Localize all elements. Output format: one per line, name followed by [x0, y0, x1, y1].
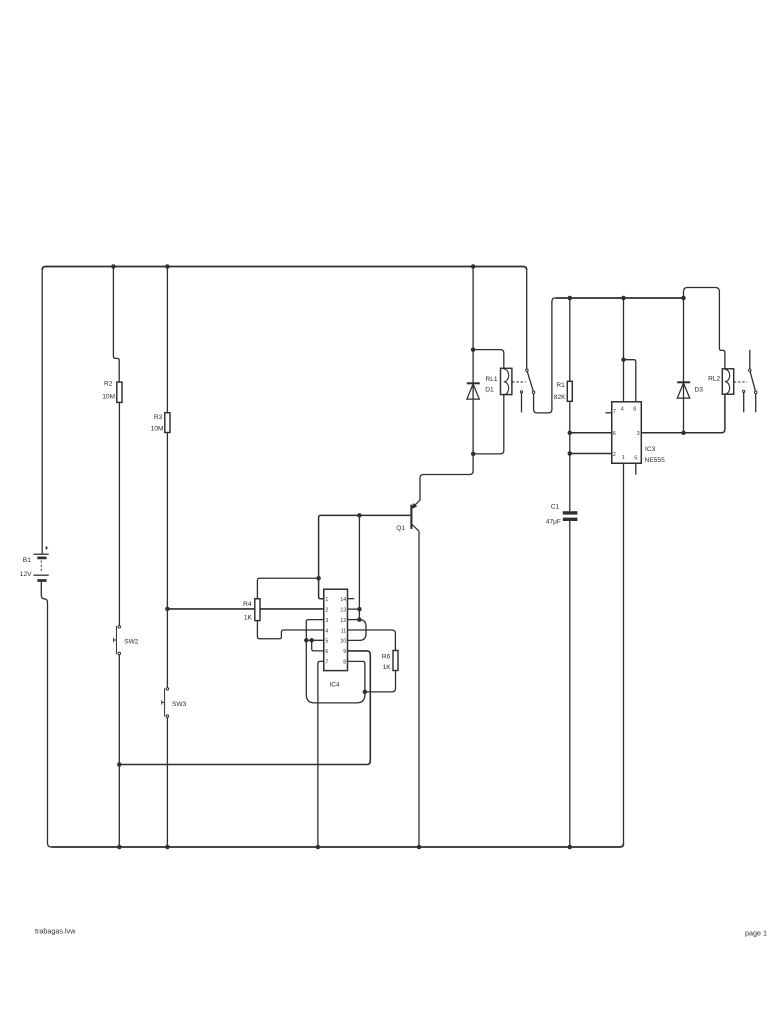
battery B1 inter-cell dashed link [40, 561, 42, 574]
relay RL2 contact blade end [754, 391, 757, 394]
switch SW2 actuator bar [114, 626, 117, 654]
svg-text:R1: R1 [556, 382, 565, 389]
node top rail / D1 [471, 264, 476, 269]
svg-text:13: 13 [340, 607, 346, 613]
svg-text:C1: C1 [551, 504, 560, 511]
wire IC4 pin12 to pin10 [348, 620, 367, 641]
capacitor C1 top plate [563, 511, 578, 514]
wire SW2 to bottom bus [118, 655, 120, 847]
svg-text:IC3: IC3 [645, 446, 656, 453]
wire IC4 pin6 link [312, 640, 324, 651]
wire C1 to bottom bus [569, 521, 571, 847]
wire top rail to D1 [472, 267, 474, 383]
svg-text:1K: 1K [383, 664, 392, 671]
resistor R1 [567, 381, 572, 401]
svg-text:12: 12 [340, 618, 346, 624]
wire IC3 pin6 stub [570, 432, 612, 434]
svg-text:R6: R6 [382, 653, 391, 660]
wire rail node to RL2 coil top [684, 288, 725, 369]
wire IC4 pin14 stub [348, 598, 355, 600]
relay RL2 contact pivot [749, 369, 752, 372]
svg-text:8: 8 [633, 406, 636, 412]
relay RL2 normally-open terminal stub [743, 393, 745, 413]
wire D3 anode to IC3 pin3 net [683, 383, 685, 433]
svg-text:10: 10 [340, 639, 346, 645]
wire top rail to R3 [166, 267, 168, 413]
node pin12 stub [357, 617, 362, 622]
node bus / SW3 [165, 845, 170, 850]
relay RL2 dashed actuator link [734, 381, 747, 383]
node bus / SW2 [117, 845, 122, 850]
wire Q1 emitter to bottom bus [418, 531, 420, 847]
svg-text:D1: D1 [485, 386, 494, 393]
wire Q1 base to IC4 pin1 [319, 515, 411, 598]
relay RL1 contact blade [527, 370, 534, 392]
svg-text:SW2: SW2 [124, 638, 139, 645]
transistor Q1 emitter diagonal [411, 524, 419, 531]
resistor R2 [117, 382, 122, 402]
wire R3 to SW3 [166, 433, 168, 688]
svg-text:5: 5 [634, 455, 637, 461]
relay RL2 output terminal stub [755, 393, 757, 412]
relay RL1 coil arcs [504, 369, 509, 395]
svg-text:3: 3 [637, 431, 640, 437]
relay RL2 normally-open terminal circle [743, 390, 745, 392]
wire top rail to RL1 common contact [526, 270, 528, 369]
svg-text:82K: 82K [554, 394, 566, 401]
wire 555 supply rail [555, 297, 683, 299]
wire R6 bottom to pin8 net [365, 671, 396, 692]
wire IC4 pin12 stub [348, 619, 360, 621]
relay RL1 normally-open terminal stub [521, 393, 523, 412]
svg-text:R3: R3 [154, 414, 163, 421]
resistor R6 [393, 651, 398, 671]
op-amp IC4 package [324, 589, 348, 670]
node R4 top / pin1 net [316, 576, 321, 581]
battery B1 plus sign [45, 546, 48, 549]
svg-text:4: 4 [325, 628, 328, 634]
node SW2 / pin9 net [117, 762, 122, 767]
wire IC4 pin3 down [306, 620, 323, 641]
svg-text:4: 4 [621, 406, 624, 412]
wire R4 top to IC4 pin1 node [257, 578, 318, 599]
svg-text:trabagas.lvw: trabagas.lvw [35, 927, 76, 936]
wire rail to IC3 pin4 [623, 298, 625, 402]
node bus / pin7 [316, 845, 321, 850]
svg-text:6: 6 [613, 431, 616, 437]
node SW3 / pin2 net [165, 607, 170, 612]
battery B1 cell2 short plate [37, 579, 46, 582]
svg-text:2: 2 [613, 452, 616, 458]
capacitor C1 bottom plate [563, 518, 578, 521]
wire IC4 pin5 stub [306, 639, 323, 641]
svg-text:2: 2 [325, 607, 328, 613]
svg-text:6: 6 [325, 649, 328, 655]
relay RL2 common terminal stub [749, 350, 751, 369]
relay RL2 coil arcs [725, 369, 730, 394]
wire D1 node to Q1 collector [412, 454, 473, 508]
wire IC4 pin11 to R6 top [348, 630, 396, 651]
relay RL1 dashed actuator link [512, 381, 525, 383]
node R6 bottom / pin8 net [363, 690, 368, 695]
node pin3/pin5 [304, 638, 309, 643]
svg-text:10M: 10M [151, 426, 164, 433]
svg-text:7: 7 [613, 409, 616, 415]
wire D1 anode down [472, 384, 474, 454]
svg-text:R4: R4 [243, 601, 252, 608]
wire SW3 to bottom bus [166, 717, 168, 847]
node pin5/pin6 [309, 638, 314, 643]
diode D1 cathode bar [467, 382, 480, 384]
wire IC3 pin3 to RL2 coil [641, 394, 725, 433]
svg-text:47µF: 47µF [546, 518, 561, 525]
wire IC4 pin8 loop to pin3/5 node [306, 640, 365, 703]
wire bottom ground bus [51, 843, 623, 847]
svg-text:1K: 1K [244, 614, 253, 621]
svg-text:SW3: SW3 [172, 701, 187, 708]
battery B1 cell1 long plate [33, 553, 48, 555]
transistor Q1 base bar [410, 505, 412, 529]
node Q1 base / pin13 [357, 513, 362, 518]
battery B1 cell2 long plate [33, 574, 48, 576]
switch SW2 bottom contact [118, 652, 121, 655]
wire IC3 pin7 stub [605, 412, 611, 414]
wire RL1 coil top branch [473, 350, 504, 369]
node pin4 / pin8 link [621, 357, 626, 362]
svg-text:11: 11 [341, 628, 346, 634]
relay RL1 contact pivot [526, 369, 529, 372]
relay RL1 coil box [501, 368, 512, 394]
wire rail node down to D3 [683, 298, 685, 382]
resistor R4 [255, 599, 260, 621]
wire IC3 pin5 stub [635, 463, 637, 474]
wire IC3 pin8 link [624, 360, 636, 402]
relay RL1 contact blade end [532, 391, 535, 394]
node R1 / pin6 [568, 431, 573, 436]
wire R4 bottom to IC4 pin4 [257, 621, 323, 639]
wire top rail to R2 [113, 267, 119, 383]
wire Q1 base net to IC4 pin13/12 [358, 515, 360, 619]
node 555 rail / D3 [681, 296, 686, 301]
battery B1 cell1 short plate [37, 557, 46, 560]
node bus / Q1 emitter [417, 845, 422, 850]
svg-text:RL2: RL2 [708, 376, 720, 383]
wire IC4 pin7 to bottom bus [318, 661, 324, 847]
node 555 rail / R1 [568, 296, 573, 301]
svg-text:3: 3 [325, 618, 328, 624]
diode D3 cathode bar [677, 381, 690, 383]
svg-text:D3: D3 [695, 386, 704, 393]
wire R1 bottom to IC3 pin6 node [569, 401, 571, 511]
relay RL2 coil box [722, 369, 733, 394]
wire rail to R1 [569, 298, 571, 381]
wire R2 to SW2 [118, 402, 120, 625]
relay RL2 contact blade [750, 370, 756, 392]
wire RL1 contact output to 555 rail [534, 298, 556, 413]
node D1 / RL1 coil top [471, 347, 476, 352]
wire node A to IC4 pin2 [167, 608, 323, 610]
switch SW2 top contact [118, 625, 121, 628]
svg-text:9: 9 [343, 649, 346, 655]
node 555 rail / pin4 [621, 296, 626, 301]
diode D1 triangle [467, 384, 479, 399]
svg-text:14: 14 [340, 597, 346, 603]
wire IC3 pin1 to bottom bus [623, 463, 625, 843]
svg-text:10M: 10M [102, 394, 115, 401]
wire top supply rail [42, 267, 527, 271]
svg-text:12V: 12V [20, 571, 32, 578]
svg-text:5: 5 [325, 639, 328, 645]
switch SW3 actuator bar [162, 688, 165, 716]
resistor R3 [165, 413, 170, 433]
svg-text:R2: R2 [104, 380, 113, 387]
svg-text:IC4: IC4 [329, 681, 340, 688]
node pin13 stub [357, 607, 362, 612]
svg-text:1: 1 [622, 455, 625, 461]
diode D3 triangle [677, 383, 689, 398]
node top rail / R2 [111, 264, 116, 269]
switch SW3 bottom contact [166, 715, 169, 718]
switch SW3 top contact [166, 688, 169, 691]
wire IC4 pin9 to SW2 bottom node [119, 651, 370, 765]
svg-text:NE555: NE555 [645, 457, 665, 464]
wire left battery branch (top rail to B1 +) [41, 270, 43, 554]
transistor Q1 collector arrowhead [412, 504, 417, 509]
wire RL1 coil bottom to D1 node [473, 395, 504, 454]
node top rail / R3 [165, 264, 170, 269]
node D1 anode / RL1 coil bottom [471, 452, 476, 457]
svg-text:8: 8 [343, 660, 346, 666]
wire IC3 pin2 stub [570, 453, 612, 455]
svg-text:Q1: Q1 [396, 525, 405, 532]
svg-text:page 1: page 1 [745, 928, 767, 937]
node D3 / pin3 net [681, 431, 686, 436]
svg-text:1: 1 [325, 597, 328, 603]
timer IC3 package [612, 402, 642, 463]
wire battery negative to bottom bus [41, 582, 51, 847]
node C1 / pin2 [568, 451, 573, 456]
svg-text:RL1: RL1 [486, 376, 498, 383]
wire IC4 pin13 stub [348, 608, 360, 610]
node bus / C1 [568, 845, 573, 850]
relay RL1 normally-open terminal circle [520, 391, 522, 393]
svg-text:7: 7 [325, 660, 328, 666]
svg-text:B1: B1 [23, 557, 31, 564]
